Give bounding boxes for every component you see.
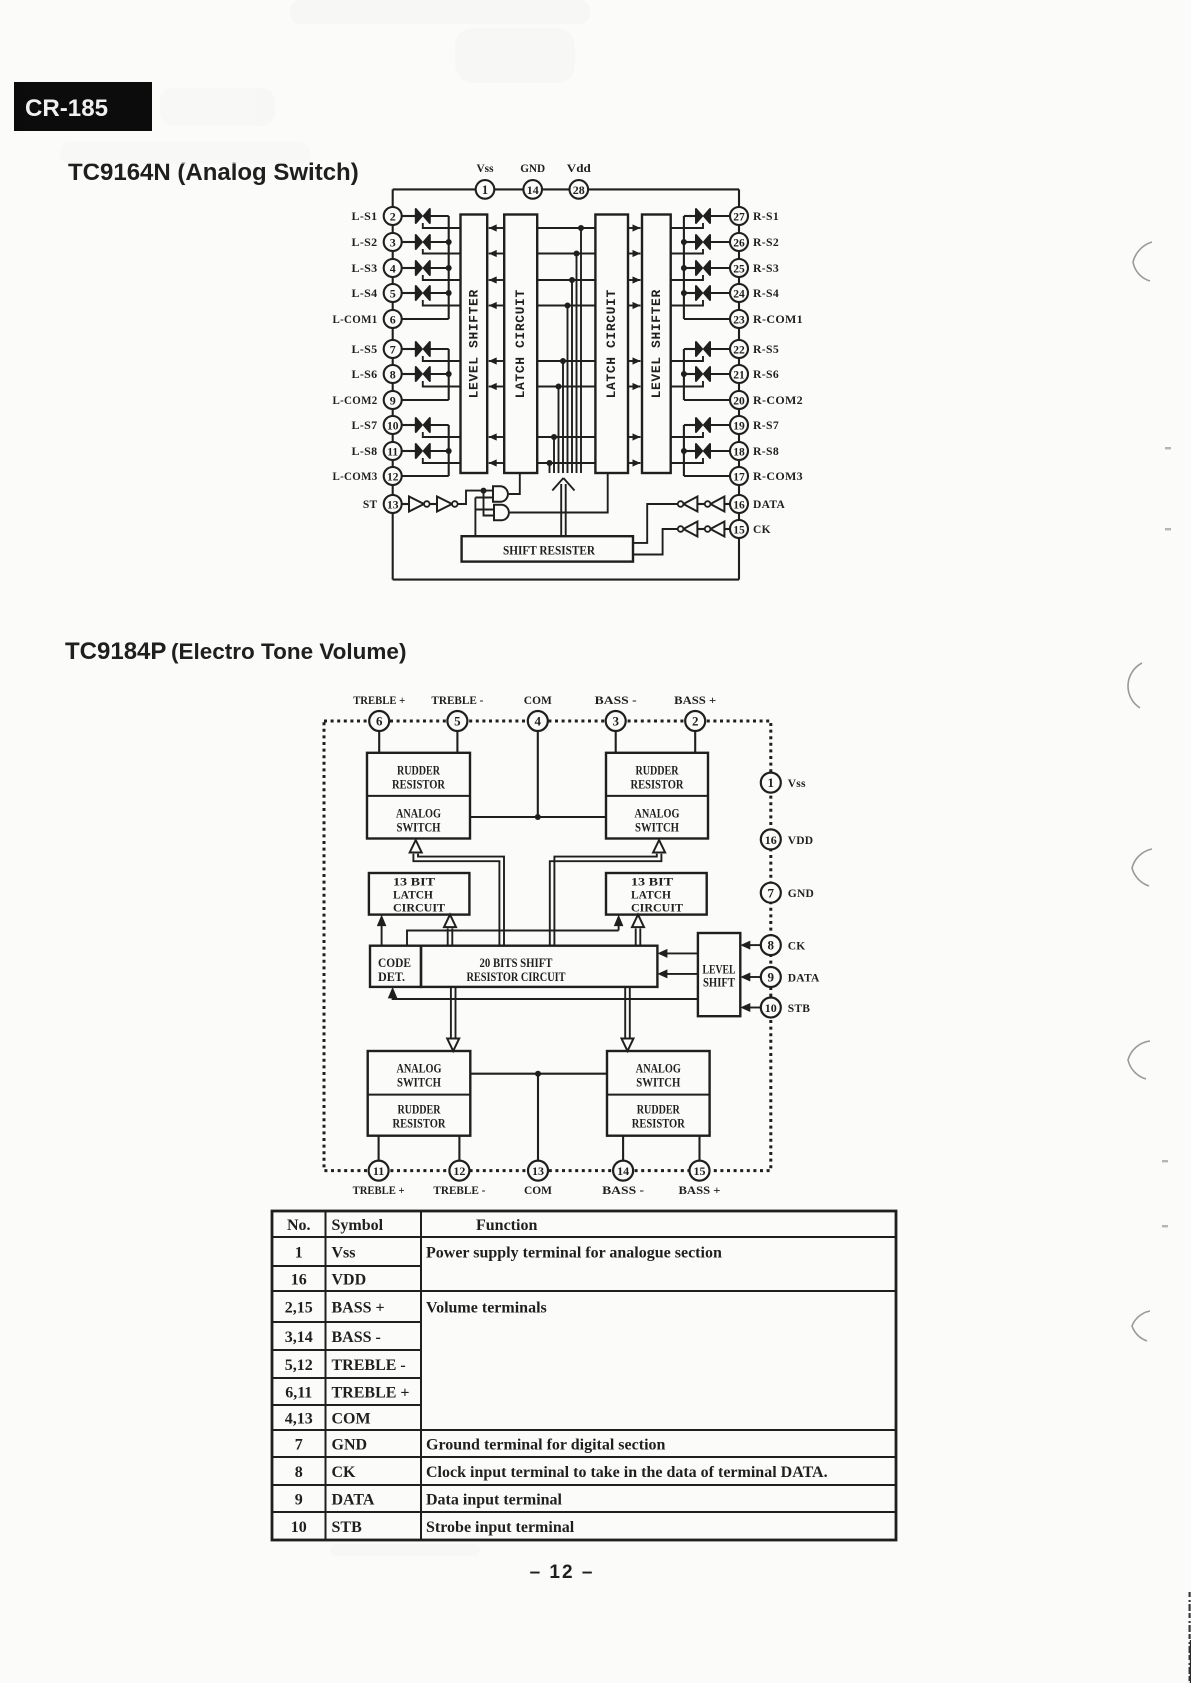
svg-text:16: 16 [765,833,777,847]
svg-text:ANALOG: ANALOG [636,1062,681,1076]
svg-text:16: 16 [733,499,745,511]
svg-text:RESISTOR: RESISTOR [631,778,685,792]
svg-text:CIRCUIT: CIRCUIT [393,901,445,915]
inverter CK buffer 2 [678,522,705,537]
wire latch to level-shifter arrow left row 8 [489,459,505,466]
pin 3 L-S2 [352,233,402,251]
pin 6 L-COM1 [333,310,402,328]
pin 25 R-S3 [730,259,779,277]
wire right pin chain [738,189,740,579]
svg-text:27: 27 [733,211,745,223]
svg-text:1: 1 [768,775,775,790]
svg-text:LATCH: LATCH [393,888,434,902]
pin 6 TREBLE + (top) [353,695,405,753]
wire latch to level-shifter arrow left row 7 [489,433,505,440]
wire latch to level-shifter arrow left row 1 [489,224,505,231]
block left 13 BIT LATCH CIRCUIT [369,873,470,915]
wire common bus to COM3 (right) [681,425,730,476]
wire latch to level-shifter arrow left row 2 [489,250,505,257]
svg-text:DATA: DATA [788,973,820,985]
svg-text:L-S8: L-S8 [352,446,378,458]
pin 16 DATA [730,495,785,513]
block 20 BITS SHIFT RESISTOR CIRCUIT [421,946,657,987]
svg-text:RESISTOR: RESISTOR [632,1117,686,1131]
pin 15 CK [730,520,771,538]
svg-text:L-COM1: L-COM1 [333,314,378,326]
svg-text:Clock input terminal to take i: Clock input terminal to take in the data… [426,1464,828,1481]
svg-text:Data input terminal: Data input terminal [426,1492,563,1509]
block upper-left RUDDER RESISTOR / ANALOG SWITCH [367,753,470,839]
wire gate control left S8 [423,458,461,463]
svg-text:2: 2 [390,209,396,223]
bus shift register to upper-right analog switch [550,840,665,946]
svg-text:L-S6: L-S6 [352,369,378,381]
pin 5 TREBLE - (top) [431,695,483,753]
svg-text:GND: GND [332,1437,368,1454]
svg-text:L-S5: L-S5 [352,344,378,356]
analog switch for L-S7 [402,418,449,432]
wire latch data bus row 2 [537,251,595,474]
svg-text:CK: CK [788,941,806,953]
svg-text:STB: STB [332,1519,363,1536]
svg-text:1: 1 [482,183,488,197]
inverter DATA buffer 2 [678,497,705,512]
analog switch for L-S2 [402,235,449,249]
analog switch for R-S2 [684,235,730,249]
svg-text:7: 7 [295,1437,303,1454]
svg-text:L-S7: L-S7 [352,420,378,432]
pin 7 GND (right) [761,883,814,903]
svg-text:7: 7 [768,885,775,900]
table row 10 STB [291,1519,575,1536]
svg-text:12: 12 [453,1164,465,1178]
pin function table frame [272,1211,896,1540]
svg-text:BASS -: BASS - [602,1185,644,1197]
AND gate G1 [493,473,520,502]
wire latch to level-shifter arrow right row 1 [628,224,641,231]
block U1 right LEVEL SHIFTER [642,215,671,474]
pin 26 R-S2 [730,233,779,251]
analog switch for L-S4 [402,286,449,300]
svg-text:LEVEL SHIFTER: LEVEL SHIFTER [466,289,481,398]
svg-text:CK: CK [753,524,771,536]
pin 12 TREBLE - (bottom) [433,1136,485,1197]
pin 9 L-COM2 [333,391,402,409]
wire CK to shift register [633,529,678,555]
wire gate control right S2 [671,249,703,254]
svg-text:4: 4 [535,714,542,729]
svg-text:GND: GND [520,161,545,175]
svg-text:SWITCH: SWITCH [397,1076,441,1090]
pin 13 COM (bottom) [524,1161,552,1197]
table row 2,15 BASS+ [285,1300,547,1317]
pin 11 L-S8 [352,442,402,460]
wire top supply rail [393,188,739,190]
svg-text:CODE: CODE [378,956,411,970]
analog switch for L-S3 [402,261,449,275]
svg-text:TC9184P: TC9184P [65,638,166,665]
svg-text:R-COM3: R-COM3 [753,471,803,483]
wire common bus to COM1 (right) [681,216,730,319]
wire latch to level-shifter arrow left row 5 [489,357,505,364]
svg-text:5: 5 [454,714,461,729]
svg-text:10: 10 [387,420,399,432]
wire gate control right S6 [671,381,703,387]
svg-text:RUDDER: RUDDER [637,1103,681,1117]
svg-text:BASS -: BASS - [332,1329,381,1346]
svg-text:CK: CK [332,1464,357,1481]
svg-text:TREBLE -: TREBLE - [332,1357,406,1374]
svg-text:4,13: 4,13 [285,1411,313,1428]
wire code det to right latch [407,915,623,946]
analog switch for R-S1 [684,209,730,223]
AND gate G2 [494,473,608,520]
pin 17 R-COM3 [730,467,803,485]
wire common bus to COM1 (left) [402,216,452,319]
svg-text:CIRCUIT: CIRCUIT [631,901,683,915]
wire latch to level-shifter arrow right row 5 [628,357,641,364]
svg-text:R-S4: R-S4 [753,288,779,300]
svg-text:R-S7: R-S7 [753,420,779,432]
svg-text:Volume terminals: Volume terminals [426,1300,547,1317]
pin 11 TREBLE + (bottom) [353,1136,405,1197]
title TC9184P (Electro Tone Volume) [65,638,406,665]
svg-text:13: 13 [532,1164,544,1178]
pin 20 R-COM2 [730,391,803,409]
svg-text:BASS -: BASS - [595,695,637,707]
table row 7 GND [295,1437,666,1454]
svg-text:L-S4: L-S4 [352,288,378,300]
table row 3,14 BASS- [285,1329,381,1346]
svg-text:11: 11 [387,446,398,458]
svg-text:COM: COM [332,1411,371,1428]
svg-text:26: 26 [733,237,745,249]
svg-text:13 BIT: 13 BIT [631,875,673,889]
wire gate control left S4 [423,300,461,306]
pin 10 STB (right) [740,998,810,1018]
block lower-right ANALOG SWITCH / RUDDER RESISTOR [607,1051,710,1136]
scan artifact paper smudges [60,0,590,1556]
inverter CK buffer 1 [705,522,730,537]
svg-text:SWITCH: SWITCH [636,1076,680,1090]
wire COM pin 4 to switches [470,731,606,820]
svg-text:7: 7 [390,342,396,356]
svg-text:9: 9 [768,970,775,985]
svg-text:8: 8 [295,1464,303,1481]
wire gate control left S5 [423,356,461,361]
wire bottom rail [393,579,739,581]
svg-text:11: 11 [373,1164,384,1178]
svg-text:9: 9 [390,393,396,407]
bus shift register to lower-right analog switch [622,987,634,1051]
pin 4 L-S3 [352,259,402,277]
svg-text:LEVEL: LEVEL [703,963,736,977]
svg-text:21: 21 [733,369,745,381]
svg-text:GND: GND [788,888,814,900]
inverter ST buffer 2 [430,497,458,512]
svg-text:Function: Function [476,1217,537,1234]
svg-text:R-S5: R-S5 [753,344,779,356]
svg-text:TREBLE +: TREBLE + [353,695,405,707]
wire left pin chain [392,189,394,579]
wire code det to left latch [377,915,387,946]
svg-text:20 BITS SHIFT: 20 BITS SHIFT [480,956,554,970]
wire latch to level-shifter arrow right row 3 [628,276,641,283]
block U1 SHIFT RESISTER [462,536,633,561]
inverter DATA buffer 1 [705,497,730,512]
dotted package border [324,721,771,1171]
svg-text:R-S3: R-S3 [753,263,779,275]
pin 28 Vdd [567,161,591,199]
bus shift register to lower-left analog switch [447,987,459,1051]
svg-text:9: 9 [295,1492,303,1509]
svg-text:2: 2 [692,714,699,729]
block lower-left ANALOG SWITCH / RUDDER RESISTOR [368,1051,471,1136]
svg-text:R-S6: R-S6 [753,369,779,381]
wire gate control right S7 [671,432,703,437]
svg-text:17: 17 [733,471,745,483]
svg-text:10: 10 [765,1001,777,1015]
pin 21 R-S6 [730,365,779,383]
svg-text:No.: No. [287,1217,311,1234]
svg-text:R-S2: R-S2 [753,237,779,249]
svg-text:Ground terminal for digital se: Ground terminal for digital section [426,1437,666,1454]
svg-text:4: 4 [390,261,396,275]
wire gate control left S2 [423,249,461,254]
svg-text:SWITCH: SWITCH [635,821,679,835]
svg-text:10: 10 [291,1519,307,1536]
pin 9 DATA (right) [740,967,820,987]
svg-text:(Electro Tone Volume): (Electro Tone Volume) [171,639,406,664]
wire shift register output arrow (up) [552,478,574,536]
svg-text:Vss: Vss [477,161,494,175]
bus shift register to right latch [632,915,644,946]
pin 27 R-S1 [730,207,779,225]
pin 3 BASS - (top) [595,695,637,753]
svg-text:SHIFT: SHIFT [703,976,736,990]
svg-text:3: 3 [612,714,619,729]
wire latch to level-shifter arrow left row 6 [489,383,505,390]
svg-text:R-S1: R-S1 [753,211,779,223]
block upper-right RUDDER RESISTOR / ANALOG SWITCH [606,753,708,839]
svg-text:Vdd: Vdd [567,161,591,175]
block LEVEL SHIFT [698,933,740,1016]
svg-text:RESISTOR: RESISTOR [392,778,446,792]
svg-text:TREBLE +: TREBLE + [332,1385,410,1402]
svg-text:28: 28 [573,183,585,197]
pin 15 BASS + (bottom) [679,1136,721,1197]
svg-text:Vss: Vss [788,778,806,790]
title TC9164N (Analog Switch) [68,159,359,186]
bus shift register to upper-left analog switch [410,840,504,946]
svg-text:3: 3 [390,235,396,249]
wire latch to level-shifter arrow right row 4 [628,302,641,309]
wire level shift to shift register (2 lines) [657,949,698,979]
pin 12 L-COM3 [333,467,402,485]
wire latch to level-shifter arrow left row 3 [489,276,505,283]
wire latch data bus row 8 [537,460,595,473]
svg-text:COM: COM [524,1185,552,1197]
svg-text:VDD: VDD [788,835,814,847]
bus shift register to left latch [444,915,456,946]
svg-text:LATCH CIRCUIT: LATCH CIRCUIT [513,289,528,398]
scan artifact page edge (bottom right) [1190,1592,1191,1683]
svg-text:14: 14 [527,183,539,197]
svg-text:6: 6 [390,312,396,326]
svg-text:L-S3: L-S3 [352,263,378,275]
wire common bus to COM3 (left) [402,425,452,476]
svg-text:DATA: DATA [332,1492,375,1509]
svg-text:15: 15 [733,524,745,536]
pin 8 CK (right) [740,935,805,955]
wire DATA to shift register [633,504,678,543]
svg-text:LATCH CIRCUIT: LATCH CIRCUIT [604,289,619,398]
pin 16 VDD (right) [761,829,814,849]
wire latch to level-shifter arrow right row 2 [628,250,641,257]
analog switch for L-S5 [402,342,449,356]
svg-text:RUDDER: RUDDER [398,1103,442,1117]
pin 5 L-S4 [352,284,402,302]
pin 10 L-S7 [352,416,402,434]
block U1 right LATCH CIRCUIT [595,215,628,474]
svg-text:6: 6 [376,714,383,729]
pin 4 COM (top) [524,695,552,731]
svg-text:14: 14 [617,1164,629,1178]
wire gate control left S7 [423,432,461,437]
block right 13 BIT LATCH CIRCUIT [606,873,707,915]
wire shift register feedback to gates [475,498,494,537]
svg-text:13: 13 [387,499,399,511]
pin 1 Vss (right) [761,773,806,793]
pin 24 R-S4 [730,284,779,302]
svg-text:3,14: 3,14 [285,1329,313,1346]
svg-text:Power supply terminal for anal: Power supply terminal for analogue secti… [426,1245,722,1262]
svg-text:24: 24 [733,288,745,300]
svg-text:8: 8 [768,938,775,953]
svg-text:RESISTOR CIRCUIT: RESISTOR CIRCUIT [467,970,567,984]
svg-text:6,11: 6,11 [285,1385,312,1402]
table row 9 DATA [295,1492,563,1509]
svg-text:Symbol: Symbol [332,1217,384,1234]
table row 4,13 COM [285,1411,371,1428]
analog switch for R-S3 [684,261,730,275]
analog switch for R-S5 [684,342,730,356]
svg-text:TREBLE +: TREBLE + [353,1185,405,1197]
svg-text:SWITCH: SWITCH [397,821,441,835]
svg-text:BASS +: BASS + [679,1185,721,1197]
analog switch for R-S6 [684,367,730,381]
pin 22 R-S5 [730,340,779,358]
pin 13 ST [363,495,402,513]
svg-text:15: 15 [694,1164,706,1178]
wire gate control right S8 [671,458,703,463]
svg-text:RESISTOR: RESISTOR [393,1117,447,1131]
pin 2 BASS + (top) [674,695,716,753]
table row 8 CK [295,1464,828,1481]
svg-text:ANALOG: ANALOG [397,1062,442,1076]
pin 7 L-S5 [352,340,402,358]
svg-text:R-S8: R-S8 [753,446,779,458]
svg-text:BASS +: BASS + [674,695,716,707]
svg-text:– 12 –: – 12 – [530,1562,595,1583]
wire latch data bus row 5 [537,358,595,473]
model label CR-185 [14,82,152,131]
wire COM pin 13 to lower switches [470,1071,607,1161]
svg-text:COM: COM [524,695,552,707]
pin 23 R-COM1 [730,310,803,328]
pin 2 L-S1 [352,207,402,225]
svg-text:ANALOG: ANALOG [396,807,441,821]
svg-text:TREBLE -: TREBLE - [431,695,483,707]
svg-text:19: 19 [733,420,745,432]
wire ST to gates [458,488,494,516]
block U1 left LATCH CIRCUIT [504,215,537,474]
svg-text:5,12: 5,12 [285,1357,313,1374]
analog switch for L-S1 [402,209,449,223]
svg-text:RUDDER: RUDDER [397,764,441,778]
svg-text:LEVEL SHIFTER: LEVEL SHIFTER [649,289,664,398]
svg-text:R-COM1: R-COM1 [753,314,803,326]
svg-text:ST: ST [363,499,378,511]
svg-text:L-S2: L-S2 [352,237,378,249]
svg-text:R-COM2: R-COM2 [753,395,803,407]
wire gate control right S4 [671,300,703,306]
page number [530,1562,595,1583]
wire latch to level-shifter arrow right row 6 [628,383,641,390]
svg-text:RUDDER: RUDDER [636,764,680,778]
svg-text:VDD: VDD [332,1272,367,1289]
block U1 left LEVEL SHIFTER [461,215,488,474]
svg-text:13 BIT: 13 BIT [393,875,435,889]
svg-text:DET.: DET. [378,970,405,984]
analog switch for L-S8 [402,444,449,458]
svg-text:L-COM2: L-COM2 [333,395,378,407]
svg-text:23: 23 [733,314,745,326]
svg-text:ANALOG: ANALOG [635,807,680,821]
svg-text:SHIFT RESISTER: SHIFT RESISTER [503,543,596,558]
wire latch data bus row 1 [537,225,595,473]
svg-text:BASS +: BASS + [332,1300,385,1317]
wire STB via level shift to code det [388,987,698,999]
table row 1 Vss [295,1245,722,1262]
inverter ST buffer 1 [402,497,430,512]
svg-text:22: 22 [733,344,745,356]
svg-text:CR-185: CR-185 [25,95,108,122]
svg-text:Vss: Vss [332,1245,356,1262]
svg-text:12: 12 [387,471,399,483]
svg-text:DATA: DATA [753,499,785,511]
analog switch for L-S6 [402,367,449,381]
table row 5,12 TREBLE- [285,1357,406,1374]
svg-text:18: 18 [733,446,745,458]
svg-text:2,15: 2,15 [285,1300,313,1317]
wire common bus to COM2 (left) [402,349,452,400]
svg-text:STB: STB [788,1003,810,1015]
wire gate control right S3 [671,275,703,280]
svg-text:5: 5 [390,286,396,300]
svg-text:L-COM3: L-COM3 [333,471,378,483]
wire latch to level-shifter arrow left row 4 [489,302,505,309]
wire latch data bus row 7 [537,434,595,473]
wire latch data bus row 4 [537,303,595,474]
wire latch to level-shifter arrow right row 8 [628,459,641,466]
svg-text:Strobe input terminal: Strobe input terminal [426,1519,575,1536]
svg-text:8: 8 [390,367,396,381]
wire common bus to COM2 (right) [681,349,730,400]
wire gate control left S6 [423,381,461,387]
pin 1 Vss [476,161,495,199]
table row 6,11 TREBLE+ [285,1385,409,1402]
